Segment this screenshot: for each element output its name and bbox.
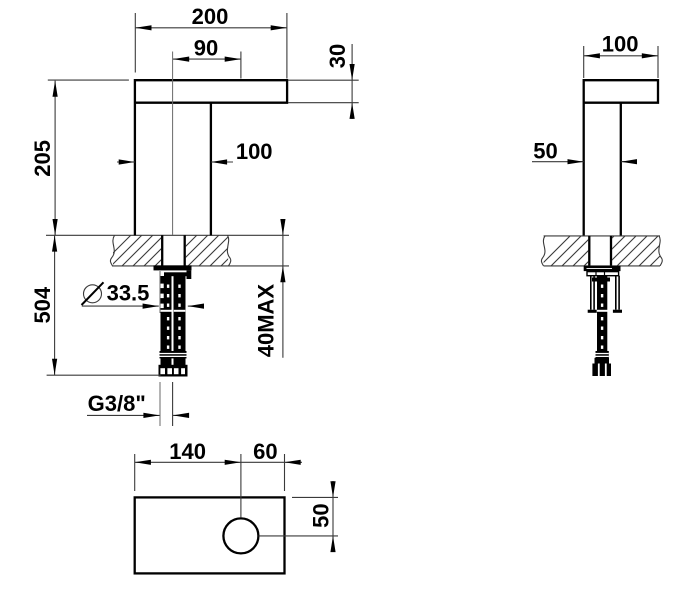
dimension 50 side bbox=[532, 139, 637, 165]
front view: shank through counter bbox=[162, 235, 185, 265]
front view: hose end nuts bbox=[159, 365, 188, 377]
dimension G3/8" bbox=[87, 271, 189, 426]
plan view: circle centerline vertical bbox=[240, 454, 242, 518]
side view: counter bottom line bbox=[544, 265, 660, 267]
side view: shank bbox=[589, 236, 611, 266]
side view: hose bbox=[592, 276, 610, 353]
side view: left stud bbox=[588, 276, 597, 313]
plan view: spout hole circle bbox=[223, 518, 258, 553]
dimension 90 bbox=[173, 36, 241, 79]
counter hatching (front + side) bbox=[100, 235, 685, 266]
front view: centerline bbox=[172, 52, 174, 236]
dimension 100 front bbox=[117, 139, 273, 165]
dimension 30 bbox=[288, 44, 359, 119]
dimension 205 bbox=[30, 80, 129, 235]
svg-text:100: 100 bbox=[602, 32, 639, 57]
side view: hose coupler bbox=[596, 351, 609, 358]
svg-text:205: 205 bbox=[30, 140, 55, 177]
svg-text:50: 50 bbox=[309, 503, 334, 527]
side view: counter right break bbox=[659, 236, 662, 266]
plan view: circle centerline horizontal bbox=[259, 535, 339, 537]
front view: counter bottom line bbox=[112, 265, 289, 267]
dimension 200 bbox=[135, 4, 287, 79]
dimension 504 bbox=[30, 235, 161, 375]
front view: right stud top bbox=[187, 270, 192, 279]
svg-text:100: 100 bbox=[236, 139, 273, 164]
svg-text:504: 504 bbox=[30, 286, 55, 323]
svg-text:50: 50 bbox=[533, 139, 557, 164]
side view: counter left break bbox=[541, 236, 545, 266]
dimension 100 side bbox=[584, 32, 658, 79]
side view: cap bbox=[584, 80, 658, 236]
svg-text:140: 140 bbox=[169, 439, 206, 464]
front view: hose couplers bbox=[160, 351, 187, 358]
side view: counter top line bbox=[544, 235, 660, 237]
side view: bracket bbox=[587, 272, 619, 276]
front view: counter left break (wavy) bbox=[110, 235, 114, 266]
svg-text:60: 60 bbox=[253, 439, 277, 464]
front view: counter top line bbox=[46, 234, 289, 236]
side view: right stud bbox=[613, 276, 622, 313]
front view: spout bar bbox=[135, 80, 287, 235]
dimension diameter 33.5 bbox=[82, 281, 205, 309]
svg-text:40MAX: 40MAX bbox=[253, 284, 278, 358]
dimension 140 and 60 bbox=[135, 439, 302, 491]
plan view: tap body outline bbox=[135, 497, 285, 573]
front view: mounting flange bbox=[154, 265, 192, 270]
front view: left hose bbox=[160, 276, 172, 365]
dimension 50 plan bbox=[292, 481, 338, 552]
svg-text:30: 30 bbox=[325, 44, 350, 68]
front view: counter right break (wavy) bbox=[227, 235, 230, 266]
svg-text:33.5: 33.5 bbox=[107, 281, 150, 306]
svg-text:90: 90 bbox=[194, 36, 218, 61]
svg-text:G3/8": G3/8" bbox=[88, 391, 146, 416]
side view: flange bbox=[584, 266, 621, 271]
side view: hose end nut bbox=[592, 358, 611, 376]
svg-text:200: 200 bbox=[192, 4, 229, 29]
dimension 40MAX bbox=[253, 219, 285, 358]
front view: bracket bar bbox=[164, 272, 187, 276]
front view: right hose bbox=[174, 276, 186, 365]
